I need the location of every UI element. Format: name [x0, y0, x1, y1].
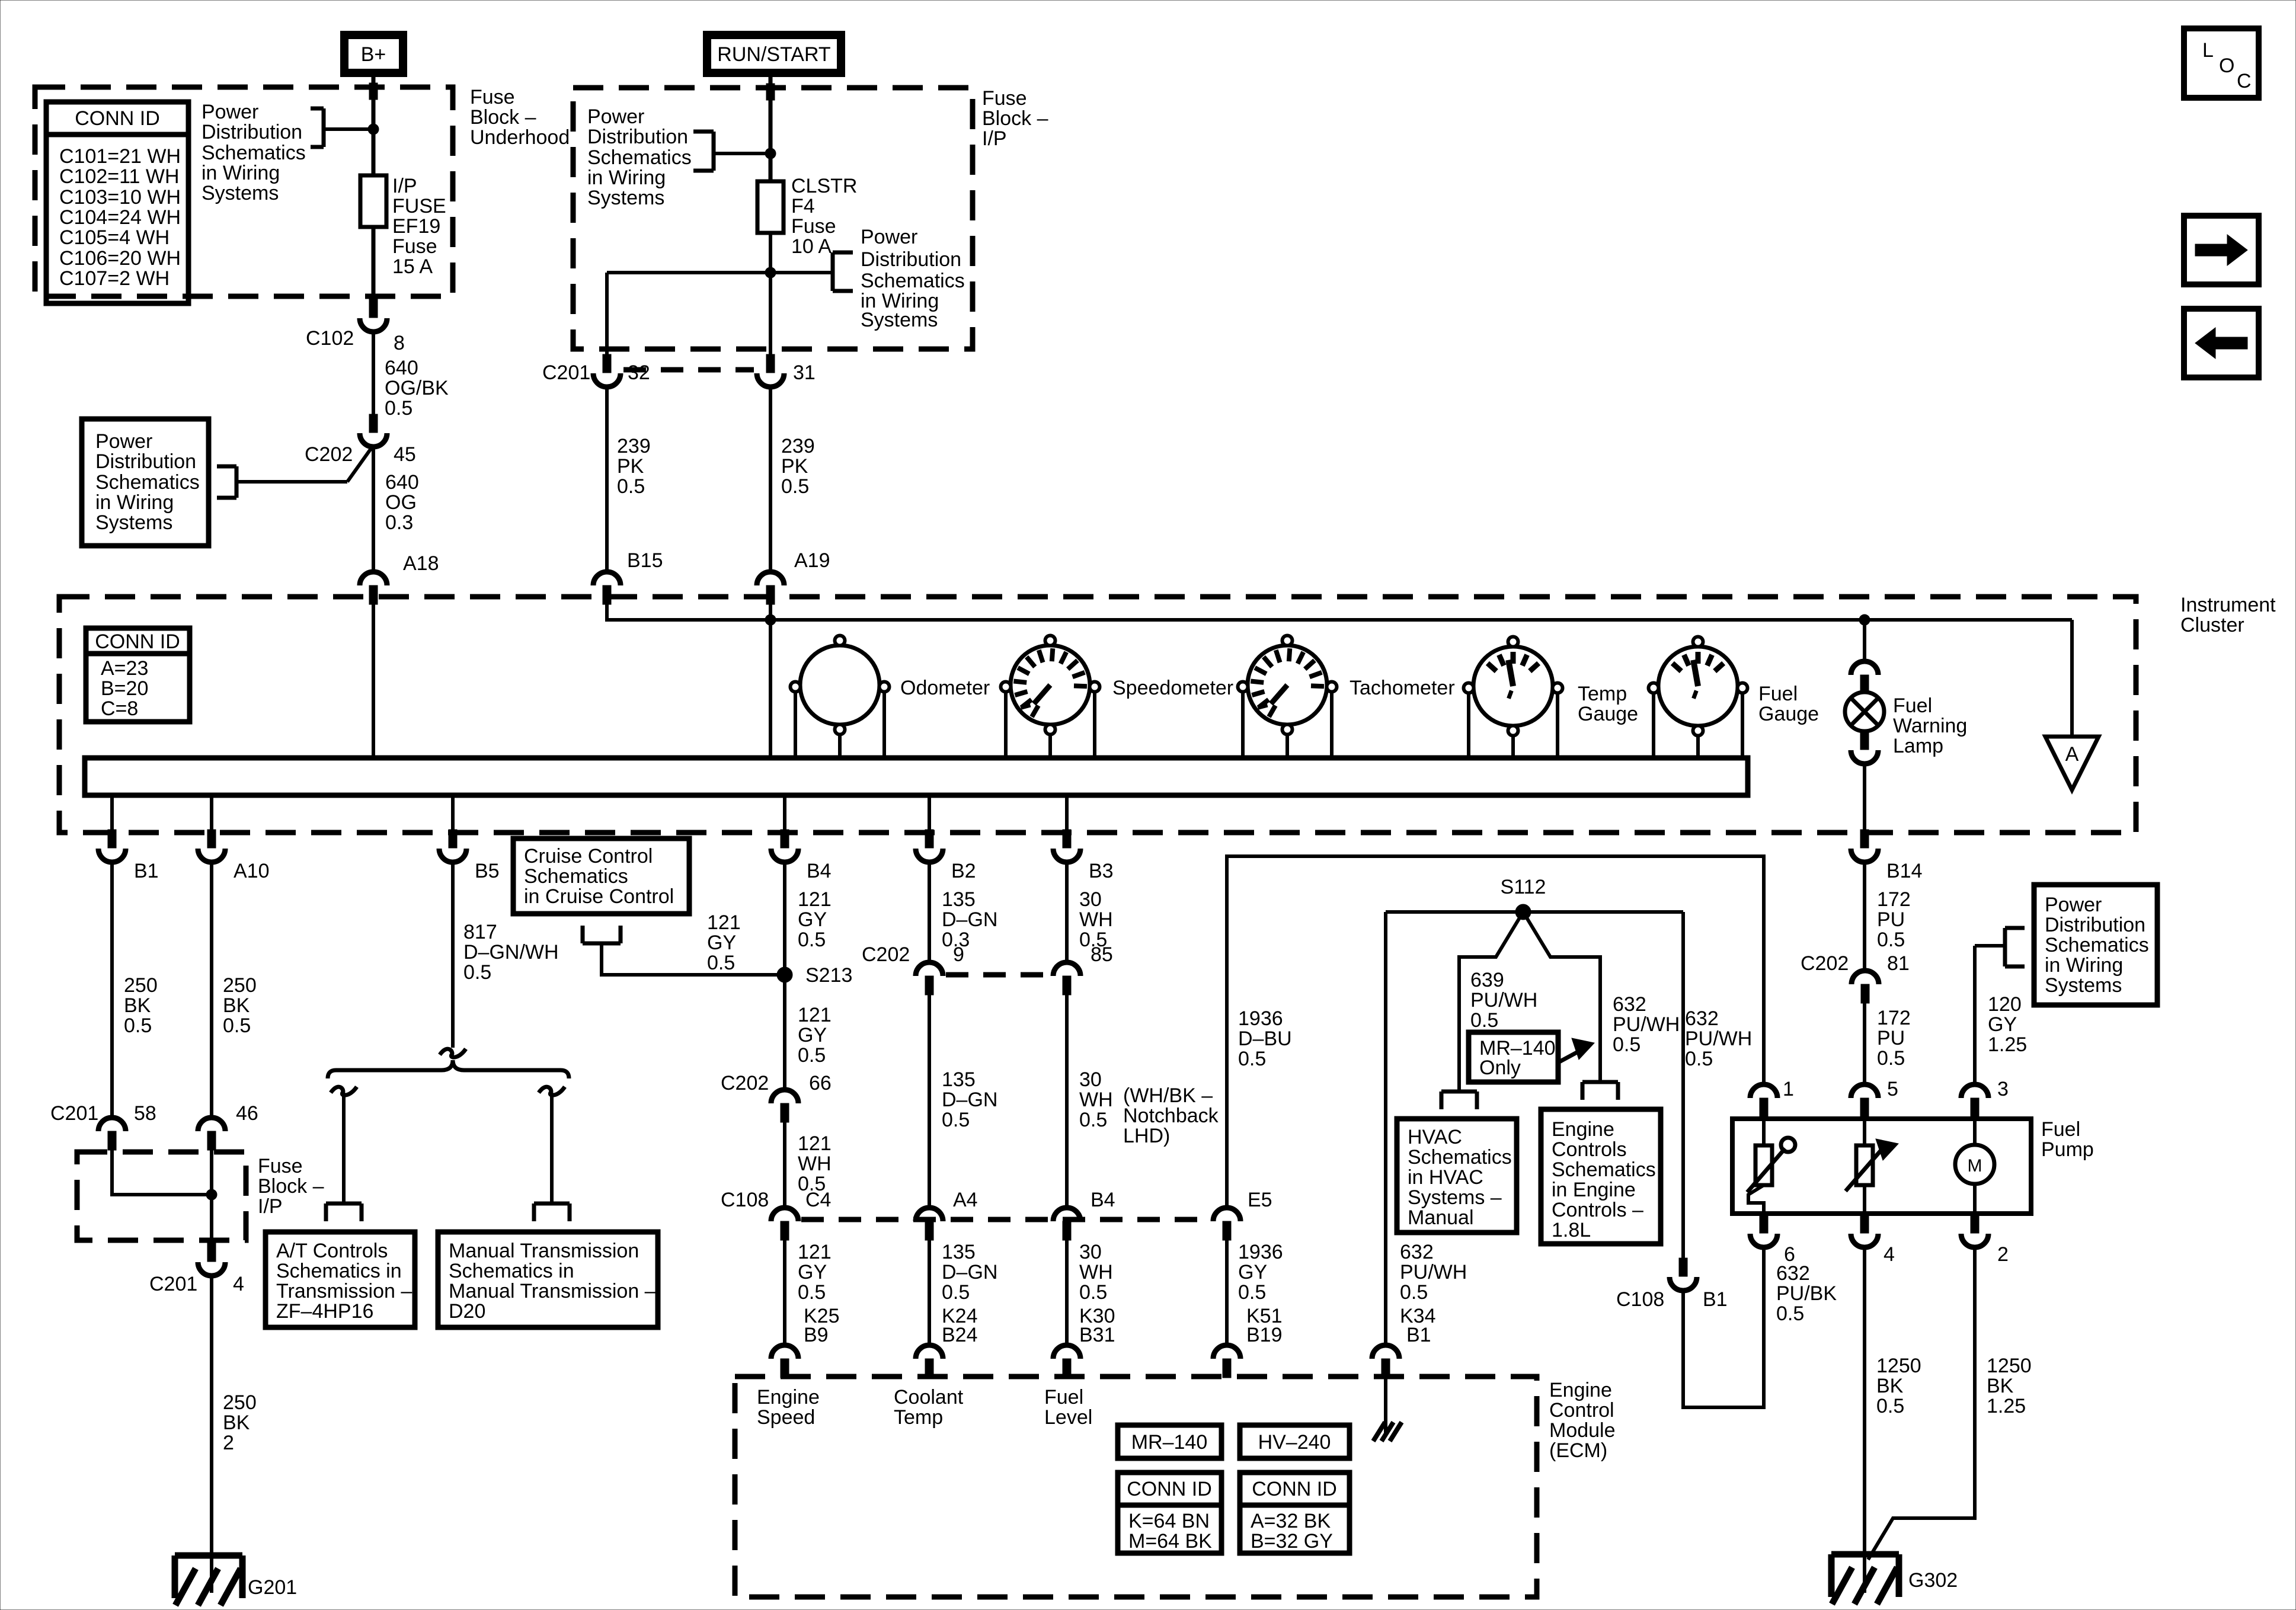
- labels C201 58 46: [50, 1102, 258, 1125]
- bracket from power distribution box to C202 wire: [217, 449, 371, 498]
- svg-text:Power: Power: [2045, 894, 2102, 916]
- svg-text:Block –: Block –: [982, 107, 1048, 130]
- labels K51 B19: [1246, 1305, 1283, 1346]
- svg-text:250: 250: [124, 974, 158, 997]
- wire label 135 D-GN 0.3: [942, 888, 997, 951]
- wire label 1936 GY 0.5: [1238, 1241, 1283, 1304]
- svg-text:BK: BK: [124, 994, 151, 1017]
- svg-text:4: 4: [1884, 1243, 1895, 1266]
- svg-text:640: 640: [385, 471, 419, 494]
- wire RUN/START down to fuse F4: [769, 77, 773, 181]
- svg-text:0.3: 0.3: [385, 511, 413, 534]
- wire pin 4 to G302, 1250 BK 0.5: [1863, 1248, 1866, 1593]
- svg-text:Speed: Speed: [757, 1406, 815, 1429]
- svg-text:in Wiring: in Wiring: [95, 491, 174, 514]
- svg-text:A19: A19: [794, 549, 830, 572]
- svg-text:817: 817: [463, 921, 497, 943]
- fuse block I/P small dashed box: [77, 1152, 246, 1240]
- svg-text:121: 121: [798, 888, 832, 911]
- svg-text:Fuel: Fuel: [2041, 1118, 2080, 1141]
- wire to B4, 30 WH 0.5: [1065, 995, 1069, 1209]
- labels K30 B31: [1079, 1305, 1115, 1346]
- engine controls box: [1541, 1109, 1661, 1244]
- connector line C201: [623, 367, 754, 373]
- svg-text:WH: WH: [1079, 1261, 1113, 1283]
- svg-text:Engine: Engine: [1549, 1379, 1612, 1401]
- gauge temp: [1464, 637, 1563, 757]
- wire S112 right leg to C108 B1: [1681, 912, 1685, 1259]
- svg-text:GY: GY: [707, 932, 736, 954]
- svg-text:C105=4 WH: C105=4 WH: [59, 226, 170, 249]
- svg-text:0.5: 0.5: [223, 1014, 251, 1037]
- wire C108 B1 U-loop to pump pin 6: [1683, 1248, 1764, 1407]
- wire to C108, 121 WH 0.5: [783, 1122, 786, 1209]
- power distribution note (I/P lower): [861, 226, 965, 331]
- svg-text:Distribution: Distribution: [202, 121, 302, 143]
- svg-text:0.5: 0.5: [1079, 1109, 1107, 1131]
- CONN ID table (underhood): [46, 102, 188, 303]
- svg-text:C201: C201: [542, 361, 590, 384]
- wire to K24, 135 D-GN 0.5: [928, 1240, 931, 1346]
- svg-text:BK: BK: [223, 994, 250, 1017]
- svg-text:B1: B1: [1406, 1324, 1431, 1346]
- svg-text:1250: 1250: [1876, 1355, 1921, 1377]
- connector C108 pin C4: [771, 1208, 798, 1240]
- wire S112 left leg to K34: [1384, 912, 1387, 1346]
- svg-text:4: 4: [233, 1273, 244, 1295]
- MR-140 Only box with arrow: [1469, 1032, 1594, 1082]
- gauge speedometer: [1001, 636, 1100, 757]
- connector C108 pin B4: [1053, 1208, 1080, 1240]
- connector B3 (cluster): [1053, 830, 1080, 862]
- connector C102: [360, 299, 387, 332]
- claw bracket above Manual box: [534, 1202, 570, 1206]
- wire cruise bracket to S213: [602, 943, 785, 975]
- svg-text:C=8: C=8: [101, 697, 138, 720]
- svg-text:Distribution: Distribution: [861, 248, 961, 271]
- svg-text:58: 58: [134, 1102, 156, 1125]
- connector A19: [757, 572, 784, 604]
- labels C201 4: [149, 1273, 244, 1295]
- wire feed corner down to triangle A: [2070, 620, 2074, 737]
- ECM internal ground: [1373, 1378, 1402, 1441]
- svg-text:639: 639: [1470, 969, 1504, 991]
- svg-text:Manual Transmission: Manual Transmission: [449, 1240, 639, 1262]
- svg-text:I/P: I/P: [392, 175, 417, 197]
- bracket to pin 3 wire: [1975, 928, 2025, 966]
- svg-text:Pump: Pump: [2041, 1138, 2094, 1161]
- svg-text:0.5: 0.5: [124, 1014, 152, 1037]
- svg-text:0.5: 0.5: [1685, 1048, 1713, 1070]
- bracket to B+ wire: [311, 108, 373, 147]
- svg-text:32: 32: [628, 361, 650, 384]
- labels K34 B1: [1400, 1305, 1436, 1346]
- svg-text:0.5: 0.5: [1238, 1281, 1266, 1304]
- node: junction A19/feed: [765, 614, 776, 625]
- ECM label: [1549, 1379, 1616, 1462]
- wire label 250 BK 0.5 (B1): [124, 974, 158, 1037]
- svg-text:1.25: 1.25: [1988, 1033, 2027, 1056]
- connector above fuel warning lamp: [1851, 661, 1878, 694]
- wire label 30 WH 0.5: [1079, 888, 1113, 951]
- S112 split Y to branches: [1459, 912, 1600, 1092]
- svg-text:1250: 1250: [1987, 1355, 2032, 1377]
- fuse block underhood label: [470, 86, 570, 149]
- svg-text:Manual: Manual: [1408, 1206, 1474, 1229]
- svg-text:C201: C201: [149, 1273, 197, 1295]
- svg-text:Controls: Controls: [1552, 1138, 1627, 1161]
- svg-text:MR–140: MR–140: [1131, 1431, 1208, 1454]
- wire break squiggle on B5: [440, 1049, 466, 1057]
- connector below fuel warning lamp: [1851, 731, 1878, 764]
- wire label 1936 D-BU 0.5: [1238, 1007, 1292, 1070]
- wire label 30 WH 0.5 (lower): [1079, 1241, 1113, 1304]
- wire label 632 PU/WH 0.5 (K34): [1400, 1241, 1467, 1304]
- svg-text:0.5: 0.5: [1400, 1281, 1428, 1304]
- ground G201: [175, 1555, 242, 1605]
- svg-text:BK: BK: [223, 1411, 250, 1434]
- svg-text:HVAC: HVAC: [1408, 1126, 1462, 1148]
- connector C108 pin B1: [1670, 1258, 1697, 1291]
- connector C201 pin 31: [757, 354, 784, 387]
- svg-text:B19: B19: [1246, 1324, 1283, 1346]
- label C102 / pin 8: [306, 327, 405, 354]
- svg-text:B31: B31: [1079, 1324, 1115, 1346]
- svg-text:0.5: 0.5: [798, 929, 826, 951]
- svg-text:PU: PU: [1877, 908, 1905, 931]
- svg-text:PU/WH: PU/WH: [1400, 1261, 1467, 1283]
- svg-text:CONN ID: CONN ID: [1252, 1478, 1337, 1500]
- svg-text:1: 1: [1783, 1078, 1794, 1100]
- svg-text:M: M: [1968, 1156, 1982, 1176]
- connector pump pin 5: [1851, 1084, 1878, 1117]
- svg-text:135: 135: [942, 888, 976, 911]
- svg-text:D–BU: D–BU: [1238, 1028, 1292, 1050]
- svg-text:46: 46: [236, 1102, 258, 1125]
- gauge tachometer: [1238, 636, 1337, 757]
- node: junction below F4: [765, 267, 776, 278]
- svg-text:2: 2: [1997, 1243, 2009, 1266]
- gauge odometer: [791, 636, 890, 757]
- wire label 121 GY 0.5 (cruise): [707, 911, 741, 974]
- gauge fuel: [1649, 637, 1748, 757]
- wire B3 down, 30 WH 0.5: [1065, 862, 1069, 963]
- svg-text:0.5: 0.5: [1238, 1048, 1266, 1070]
- svg-text:1.8L: 1.8L: [1552, 1219, 1591, 1241]
- triangle A reference: [2045, 737, 2099, 790]
- labels C202 66: [721, 1072, 832, 1094]
- svg-text:Systems: Systems: [861, 309, 938, 331]
- svg-text:121: 121: [798, 1132, 832, 1155]
- svg-text:CONN ID: CONN ID: [95, 630, 180, 653]
- wire S112 bus: [1386, 910, 1683, 914]
- svg-text:in Cruise Control: in Cruise Control: [524, 885, 674, 908]
- svg-text:L: L: [2202, 39, 2214, 62]
- svg-text:0.5: 0.5: [1877, 1047, 1905, 1070]
- wire fuse EF19 to C102: [372, 227, 376, 300]
- svg-text:66: 66: [809, 1072, 832, 1094]
- svg-text:D–GN/WH: D–GN/WH: [463, 941, 559, 964]
- wire to pump pin 3, 120 GY 1.25: [1973, 946, 1977, 1085]
- wire B4 down, 121 GY 0.5: [783, 862, 786, 1090]
- svg-text:C108: C108: [721, 1189, 769, 1211]
- svg-text:O: O: [2219, 55, 2234, 77]
- svg-text:632: 632: [1776, 1262, 1810, 1285]
- svg-text:B4: B4: [807, 860, 832, 882]
- power distribution note (underhood): [202, 101, 306, 204]
- svg-text:Gauge: Gauge: [1758, 703, 1819, 725]
- wire label 121 WH 0.5: [798, 1132, 832, 1195]
- wire label 1250 BK 0.5: [1876, 1355, 1921, 1417]
- svg-text:Schematics: Schematics: [1408, 1146, 1512, 1169]
- svg-text:WH: WH: [798, 1153, 832, 1175]
- label Fuel Pump: [2041, 1118, 2094, 1161]
- svg-text:GY: GY: [798, 1261, 827, 1283]
- svg-text:2: 2: [223, 1432, 234, 1454]
- wire bus to cluster edge at x=189: [110, 795, 114, 831]
- svg-text:Instrument: Instrument: [2180, 594, 2276, 616]
- label C202 / 45: [305, 443, 416, 466]
- svg-text:E5: E5: [1248, 1189, 1272, 1211]
- svg-text:Fuse: Fuse: [392, 235, 437, 258]
- wire to G201, 250 BK 2: [210, 1276, 213, 1593]
- svg-text:Schematics: Schematics: [202, 142, 306, 164]
- fuse block I/P small label: [258, 1155, 324, 1218]
- connector C202 pin 9: [916, 962, 943, 995]
- power distribution schematics box (left): [82, 419, 209, 546]
- svg-text:Fuse: Fuse: [258, 1155, 303, 1177]
- svg-text:A: A: [2065, 743, 2079, 766]
- svg-text:BK: BK: [1987, 1375, 2014, 1397]
- connector C108 pin E5: [1213, 1208, 1240, 1240]
- A/T controls box: [266, 1232, 415, 1327]
- connector B4 (cluster): [771, 830, 798, 862]
- wire bus to cluster edge at x=1800: [1065, 795, 1069, 831]
- wire B1 down, 250 BK 0.5: [110, 862, 114, 1118]
- svg-text:I/P: I/P: [982, 127, 1007, 150]
- LOC locator box: [2184, 28, 2259, 98]
- svg-text:239: 239: [781, 435, 815, 457]
- svg-text:120: 120: [1988, 993, 2022, 1016]
- wire F4 to C201-31: [769, 233, 772, 359]
- wire B1 joins A10 inside fuse block: [112, 1149, 212, 1195]
- wire B2 down, 135 D-GN 0.3: [928, 862, 931, 963]
- svg-text:250: 250: [223, 974, 257, 997]
- wire to K30, 30 WH 0.5: [1065, 1240, 1069, 1346]
- instrument cluster dashed box: [59, 597, 2136, 833]
- svg-text:Schematics in: Schematics in: [449, 1260, 574, 1282]
- label Temp Gauge: [1578, 683, 1638, 725]
- wire break squiggle left branch: [331, 1087, 357, 1095]
- labels C108 C4: [721, 1189, 831, 1211]
- svg-text:Schematics: Schematics: [1552, 1158, 1656, 1181]
- svg-text:Control: Control: [1549, 1399, 1614, 1422]
- svg-text:Distribution: Distribution: [95, 450, 196, 473]
- svg-text:C104=24 WH: C104=24 WH: [59, 206, 181, 229]
- svg-text:B=32 GY: B=32 GY: [1251, 1530, 1333, 1553]
- svg-text:C202: C202: [305, 443, 353, 466]
- svg-text:C102=11 WH: C102=11 WH: [59, 165, 180, 188]
- svg-text:0.5: 0.5: [781, 475, 809, 498]
- node: junction on RUN/START wire: [765, 148, 776, 159]
- connector C201 pin 46: [198, 1118, 225, 1150]
- svg-text:G302: G302: [1908, 1569, 1958, 1592]
- svg-text:GY: GY: [798, 908, 827, 931]
- svg-text:OG/BK: OG/BK: [385, 377, 449, 399]
- wire label 239 PK 0.5 (right): [781, 435, 815, 498]
- svg-text:Notchback: Notchback: [1123, 1105, 1219, 1127]
- svg-text:9: 9: [953, 943, 964, 966]
- connector K24: [916, 1345, 943, 1378]
- svg-text:D–GN: D–GN: [942, 908, 997, 931]
- svg-text:0.5: 0.5: [1876, 1395, 1904, 1417]
- svg-text:Systems: Systems: [587, 187, 664, 209]
- wire C202-45 to A18, 640 OG 0.3: [372, 447, 375, 571]
- wire B15 into cluster, corner to feed line: [607, 603, 2072, 620]
- svg-text:PU: PU: [1877, 1027, 1905, 1049]
- svg-text:(WH/BK –: (WH/BK –: [1123, 1084, 1213, 1107]
- svg-text:PU/WH: PU/WH: [1613, 1013, 1680, 1036]
- svg-text:C4: C4: [805, 1189, 831, 1211]
- svg-text:B=20: B=20: [101, 677, 148, 700]
- connector K34: [1372, 1345, 1399, 1378]
- wire label 172 PU 0.5: [1877, 888, 1911, 951]
- node: junction lamp/feed: [1859, 614, 1870, 625]
- connector A18: [360, 572, 387, 604]
- svg-text:30: 30: [1079, 1068, 1102, 1091]
- label Fuel Level: [1044, 1386, 1092, 1429]
- svg-text:1936: 1936: [1238, 1007, 1283, 1030]
- svg-text:3: 3: [1997, 1078, 2009, 1100]
- fuse block I/P label: [982, 87, 1048, 150]
- fuel pump box: [1732, 1119, 2031, 1214]
- connector B15: [593, 572, 621, 604]
- claw bracket above engine controls box: [1582, 1080, 1618, 1084]
- connector K25: [771, 1345, 798, 1378]
- wire A18 into cluster to bus: [372, 602, 375, 759]
- svg-text:Module: Module: [1549, 1419, 1616, 1442]
- svg-text:5: 5: [1887, 1078, 1898, 1100]
- svg-text:250: 250: [223, 1391, 257, 1414]
- svg-text:Only: Only: [1479, 1057, 1521, 1079]
- svg-text:239: 239: [617, 435, 651, 457]
- wire 31 to A19, 239 PK 0.5: [769, 387, 772, 571]
- wire pin 2 to G302, 1250 BK 1.25: [1868, 1248, 1975, 1560]
- svg-text:FUSE: FUSE: [392, 195, 446, 217]
- svg-text:B14: B14: [1886, 860, 1923, 882]
- svg-text:31: 31: [793, 361, 816, 384]
- svg-text:B+: B+: [361, 43, 386, 66]
- wire A10 through fuse block: [210, 1149, 213, 1244]
- svg-text:Odometer: Odometer: [900, 677, 990, 699]
- svg-text:C202: C202: [721, 1072, 769, 1094]
- svg-text:Temp: Temp: [894, 1406, 943, 1429]
- fuse block underhood dashed box: [35, 87, 453, 296]
- svg-text:1.25: 1.25: [1987, 1395, 2026, 1417]
- connector B14 (cluster): [1851, 830, 1878, 862]
- svg-text:S213: S213: [805, 964, 852, 987]
- connector A10 (cluster): [198, 830, 225, 862]
- wire label 121 GY 0.5 (lower): [798, 1241, 832, 1304]
- svg-text:0.5: 0.5: [1776, 1302, 1804, 1325]
- wire to pump pin 5, 172 PU 0.5: [1863, 1003, 1866, 1085]
- labels K25 B9: [804, 1305, 840, 1346]
- svg-text:Coolant: Coolant: [894, 1386, 964, 1409]
- connector C108 pin A4: [916, 1208, 943, 1240]
- connector B1 (cluster): [98, 830, 126, 862]
- svg-text:15 A: 15 A: [392, 255, 433, 278]
- wire label 632 PU/WH 0.5 (engine): [1613, 993, 1680, 1056]
- wire label 121 GY 0.5 (B4 upper): [798, 888, 832, 951]
- wire label 135 D-GN 0.5 (lower): [942, 1241, 997, 1304]
- svg-text:135: 135: [942, 1241, 976, 1263]
- svg-text:Controls –: Controls –: [1552, 1199, 1643, 1221]
- connector C202 pin 85: [1053, 962, 1080, 995]
- svg-text:GY: GY: [798, 1024, 827, 1046]
- node S112 splice: [1501, 876, 1546, 920]
- connector line C202 dashed: [946, 972, 1050, 978]
- svg-text:C102: C102: [306, 327, 354, 350]
- wire branch to C201-32: [607, 273, 770, 359]
- svg-text:D–GN: D–GN: [942, 1261, 997, 1283]
- svg-text:PU/WH: PU/WH: [1470, 989, 1537, 1012]
- instrument cluster label: [2180, 594, 2276, 636]
- svg-text:Tachometer: Tachometer: [1350, 677, 1455, 699]
- CONN ID table (HV-240): [1240, 1473, 1350, 1553]
- svg-text:B9: B9: [804, 1324, 829, 1346]
- wire B14 down, 172 PU 0.5: [1863, 862, 1866, 971]
- labels K24 B24: [942, 1305, 978, 1346]
- svg-text:D20: D20: [449, 1300, 485, 1323]
- svg-text:Schematics: Schematics: [95, 471, 200, 494]
- claw bracket below cruise box: [583, 942, 621, 946]
- connector line C108 dashed: [801, 1217, 1210, 1222]
- svg-text:ZF–4HP16: ZF–4HP16: [276, 1300, 373, 1323]
- svg-text:A=32 BK: A=32 BK: [1251, 1510, 1331, 1532]
- wire fuel pump pin1 feed, corner to E5: [1227, 856, 1764, 1208]
- svg-text:Cluster: Cluster: [2180, 614, 2244, 636]
- label Coolant Temp: [894, 1386, 964, 1429]
- svg-text:GY: GY: [1238, 1261, 1267, 1283]
- svg-text:Fuel: Fuel: [1893, 694, 1932, 717]
- svg-text:85: 85: [1091, 943, 1113, 966]
- svg-text:0.5: 0.5: [1079, 1281, 1107, 1304]
- connector C202 pin 81: [1851, 971, 1879, 1003]
- svg-text:WH: WH: [1079, 1089, 1113, 1111]
- labels C202 81: [1801, 952, 1910, 975]
- wire to K51, 1936 GY 0.5: [1225, 1240, 1229, 1346]
- label Fuel Gauge: [1758, 683, 1819, 725]
- svg-text:632: 632: [1685, 1007, 1719, 1030]
- node: junction inside fuse block: [206, 1189, 217, 1200]
- wire 32 to B15, 239 PK 0.5: [605, 387, 609, 571]
- fuse EF19 (I/P FUSE 15 A): [372, 175, 376, 227]
- svg-text:Systems: Systems: [2045, 974, 2122, 997]
- svg-text:C202: C202: [1801, 952, 1849, 975]
- connector pump pin 3: [1961, 1084, 1988, 1117]
- connector C201 pin 32: [593, 354, 621, 387]
- svg-text:Block –: Block –: [470, 106, 536, 129]
- connector C202 pin 66: [771, 1090, 798, 1122]
- connector K51: [1213, 1345, 1240, 1378]
- svg-text:0.5: 0.5: [942, 1109, 970, 1131]
- fuse block I/P dashed box: [573, 88, 973, 349]
- svg-text:Speedometer: Speedometer: [1112, 677, 1233, 699]
- svg-text:C108: C108: [1616, 1288, 1664, 1311]
- svg-text:Fuse: Fuse: [982, 87, 1027, 110]
- wire bus to cluster edge at x=1568: [928, 795, 931, 831]
- svg-text:B1: B1: [1703, 1288, 1728, 1311]
